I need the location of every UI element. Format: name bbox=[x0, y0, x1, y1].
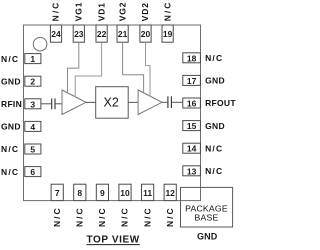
wire VG2 pin21 to amp A2 gate bbox=[123, 42, 144, 93]
pin 8 pad bbox=[74, 184, 86, 200]
wire amp A1 to X2 bbox=[86, 101, 96, 103]
svg-text:2: 2 bbox=[30, 77, 35, 87]
capacitor C-in bbox=[52, 98, 55, 109]
svg-text:23: 23 bbox=[74, 29, 84, 39]
svg-text:16: 16 bbox=[187, 99, 197, 109]
svg-text:TOP VIEW: TOP VIEW bbox=[87, 235, 140, 246]
pin 20 pad bbox=[140, 25, 151, 42]
svg-text:11: 11 bbox=[143, 188, 152, 198]
svg-text:RFIN: RFIN bbox=[1, 99, 22, 109]
svg-text:3: 3 bbox=[30, 99, 35, 109]
svg-text:17: 17 bbox=[187, 76, 197, 86]
svg-text:N/C: N/C bbox=[142, 206, 152, 227]
svg-text:6: 6 bbox=[30, 167, 35, 177]
pin 11 pad bbox=[142, 184, 154, 200]
svg-text:N/C: N/C bbox=[205, 166, 223, 176]
svg-text:GND: GND bbox=[205, 121, 225, 131]
pin 6 pad bbox=[25, 167, 41, 177]
wire X2 to amp A2 bbox=[128, 101, 138, 103]
svg-text:N/C: N/C bbox=[162, 1, 172, 22]
svg-text:N/C: N/C bbox=[1, 54, 19, 64]
svg-text:7: 7 bbox=[55, 188, 60, 198]
svg-text:5: 5 bbox=[30, 145, 35, 155]
frequency doubler X2 bbox=[96, 87, 129, 119]
wire output cap to RFOUT pin16 bbox=[172, 101, 183, 103]
svg-text:N/C: N/C bbox=[52, 206, 62, 227]
svg-text:X2: X2 bbox=[104, 96, 119, 110]
svg-text:1: 1 bbox=[30, 54, 35, 64]
svg-text:GND: GND bbox=[205, 76, 225, 86]
wire input cap to amp A1 bbox=[56, 103, 63, 105]
package base exposed pad bbox=[181, 187, 233, 227]
capacitor C-out bbox=[168, 96, 172, 108]
svg-text:VD1: VD1 bbox=[96, 2, 106, 21]
pin 23 pad bbox=[73, 25, 84, 42]
wire VD1 pin22 to amp A1 drain bbox=[75, 42, 101, 97]
wire VD2 pin20 to amp A2 drain bbox=[146, 42, 151, 96]
svg-text:VG1: VG1 bbox=[74, 2, 84, 22]
svg-text:20: 20 bbox=[141, 29, 151, 39]
svg-text:18: 18 bbox=[187, 53, 197, 63]
svg-text:N/C: N/C bbox=[51, 1, 61, 22]
pin 17 pad bbox=[183, 75, 201, 85]
svg-text:12: 12 bbox=[165, 188, 175, 198]
pin 21 pad bbox=[117, 25, 128, 42]
svg-text:N/C: N/C bbox=[75, 206, 85, 227]
svg-text:N/C: N/C bbox=[1, 144, 19, 154]
svg-text:22: 22 bbox=[97, 29, 107, 39]
svg-text:N/C: N/C bbox=[120, 206, 130, 227]
pin 4 pad bbox=[25, 121, 41, 131]
wire amp A2 to output cap bbox=[162, 101, 167, 103]
wire RFIN pin3 to input cap bbox=[41, 103, 51, 105]
svg-text:13: 13 bbox=[187, 166, 197, 176]
pin 15 pad bbox=[183, 121, 201, 131]
svg-text:VG2: VG2 bbox=[117, 2, 127, 22]
pin 24 pad bbox=[50, 25, 61, 42]
pin 3 pad bbox=[25, 99, 41, 109]
package outline bbox=[24, 25, 201, 201]
svg-text:10: 10 bbox=[120, 188, 130, 198]
pin 1 pad bbox=[25, 54, 41, 64]
svg-text:GND: GND bbox=[1, 76, 21, 86]
pin 10 pad bbox=[119, 184, 131, 200]
svg-text:N/C: N/C bbox=[205, 53, 223, 63]
svg-text:19: 19 bbox=[163, 29, 173, 39]
svg-text:21: 21 bbox=[118, 29, 128, 39]
svg-text:14: 14 bbox=[187, 144, 197, 154]
svg-text:N/C: N/C bbox=[165, 206, 175, 227]
pin 19 pad bbox=[162, 25, 173, 42]
svg-text:VD2: VD2 bbox=[140, 2, 150, 21]
pin 5 pad bbox=[25, 144, 41, 154]
svg-text:15: 15 bbox=[187, 121, 197, 131]
svg-text:RFOUT: RFOUT bbox=[205, 98, 236, 108]
pin 16 pad bbox=[183, 98, 201, 108]
pin 1 indicator circle bbox=[33, 37, 47, 51]
pin 2 pad bbox=[25, 76, 41, 86]
svg-text:N/C: N/C bbox=[1, 167, 19, 177]
wire VG1 pin23 to amp A1 gate bbox=[68, 42, 79, 93]
svg-text:24: 24 bbox=[51, 29, 61, 39]
svg-text:GND: GND bbox=[197, 232, 218, 242]
svg-text:8: 8 bbox=[77, 188, 82, 198]
pin 12 pad bbox=[164, 184, 176, 200]
TOP VIEW underline bbox=[87, 244, 140, 246]
op-amp A1 bbox=[62, 90, 86, 115]
pin 7 pad bbox=[51, 184, 63, 200]
pin 18 pad bbox=[183, 53, 201, 63]
pin 13 pad bbox=[183, 166, 201, 176]
svg-text:N/C: N/C bbox=[97, 206, 107, 227]
svg-text:BASE: BASE bbox=[195, 212, 219, 222]
pin 14 pad bbox=[183, 143, 201, 153]
svg-text:N/C: N/C bbox=[205, 143, 223, 153]
svg-text:4: 4 bbox=[30, 122, 35, 132]
op-amp A2 bbox=[138, 90, 162, 115]
pin 22 pad bbox=[96, 25, 107, 42]
svg-text:GND: GND bbox=[1, 122, 21, 132]
svg-text:9: 9 bbox=[100, 188, 105, 198]
pin 9 pad bbox=[96, 184, 108, 200]
